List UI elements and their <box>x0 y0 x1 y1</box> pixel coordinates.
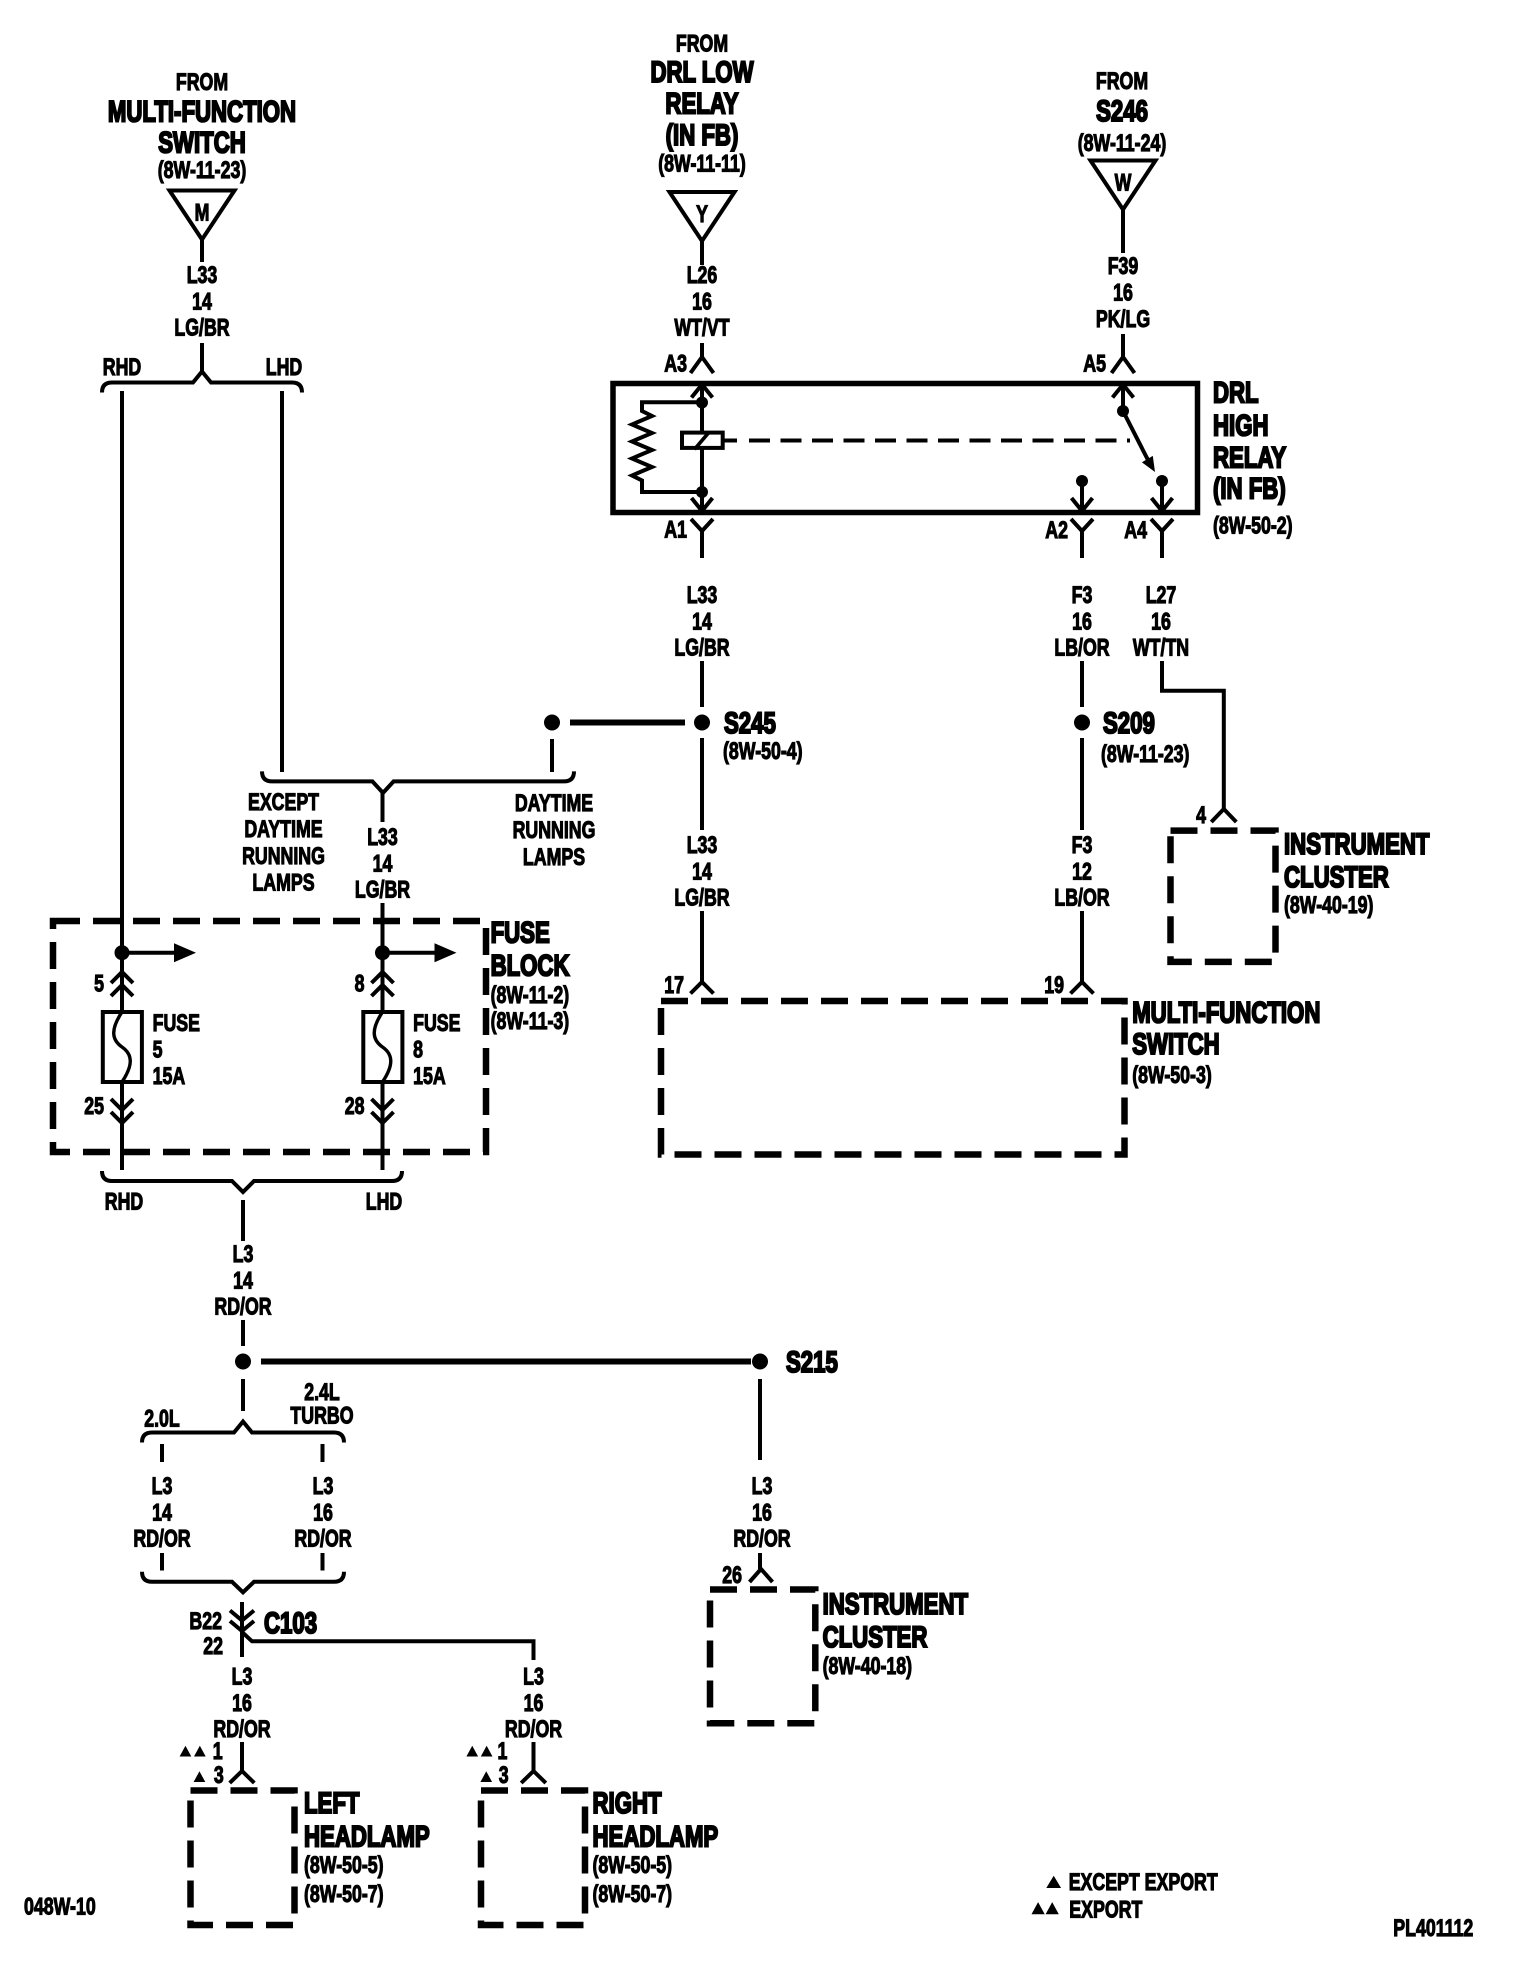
svg-text:8: 8 <box>355 971 365 997</box>
relay junction (coil bottom) <box>696 486 708 498</box>
merge bracket to C103 <box>142 1572 344 1593</box>
wire S245 to daytime-running-lamps bracket <box>550 739 554 772</box>
wire LHD to except-DRL bracket <box>280 391 284 772</box>
terminal chevrons pin 5 <box>111 972 133 996</box>
connector right headlamp pin 3 <box>521 1771 546 1783</box>
svg-text:FROM: FROM <box>176 70 228 96</box>
svg-text:F3: F3 <box>1072 833 1093 859</box>
wire <box>700 343 704 357</box>
svg-text:(8W-11-24): (8W-11-24) <box>1078 131 1166 157</box>
connector pin 26 <box>750 1569 773 1582</box>
dashed actuation link <box>749 439 1130 443</box>
box RIGHT HEADLAMP <box>481 1791 585 1926</box>
svg-text:WT/TN: WT/TN <box>1133 635 1189 661</box>
svg-text:S246: S246 <box>1096 94 1148 128</box>
svg-text:16: 16 <box>232 1690 252 1716</box>
svg-text:RD/OR: RD/OR <box>294 1526 351 1552</box>
relay junction (coil top) <box>696 397 708 409</box>
wire A4 to instrument cluster pin 4 <box>1162 661 1224 809</box>
split bracket 2.0L/2.4L <box>142 1422 344 1443</box>
box LEFT HEADLAMP <box>191 1791 295 1926</box>
svg-text:INSTRUMENT: INSTRUMENT <box>1284 827 1429 861</box>
svg-text:S215: S215 <box>786 1345 838 1379</box>
svg-text:A2: A2 <box>1045 518 1068 544</box>
svg-text:14: 14 <box>233 1268 253 1294</box>
svg-text:(8W-40-19): (8W-40-19) <box>1284 893 1373 919</box>
svg-text:15A: 15A <box>413 1064 446 1090</box>
wire S215 bus <box>261 1359 751 1365</box>
wire <box>700 661 704 707</box>
split bracket RHD/LHD <box>102 372 302 393</box>
svg-text:LB/OR: LB/OR <box>1054 635 1109 661</box>
svg-text:FROM: FROM <box>1096 69 1148 95</box>
wire <box>240 1742 244 1771</box>
svg-text:LG/BR: LG/BR <box>355 877 410 903</box>
wire <box>700 738 704 830</box>
wire <box>200 343 204 371</box>
node S209 <box>1074 715 1090 731</box>
wire <box>1121 210 1125 254</box>
svg-text:1: 1 <box>498 1739 508 1765</box>
svg-text:INSTRUMENT: INSTRUMENT <box>823 1587 968 1621</box>
wire <box>241 1200 245 1241</box>
svg-text:3: 3 <box>214 1763 224 1789</box>
svg-text:PK/LG: PK/LG <box>1096 306 1150 332</box>
svg-text:L3: L3 <box>752 1474 773 1500</box>
svg-text:RHD: RHD <box>105 1189 143 1215</box>
svg-text:RHD: RHD <box>103 355 141 381</box>
relay switch arm (to A4) <box>1123 411 1149 461</box>
wire <box>1080 911 1084 982</box>
svg-text:28: 28 <box>345 1094 365 1120</box>
wire S245 bus <box>570 720 685 726</box>
svg-text:4: 4 <box>1196 803 1206 829</box>
svg-text:DRL LOW: DRL LOW <box>650 55 753 89</box>
svg-text:(8W-50-7): (8W-50-7) <box>593 1882 673 1908</box>
svg-text:(8W-50-5): (8W-50-5) <box>304 1853 384 1879</box>
svg-text:SWITCH: SWITCH <box>1132 1027 1220 1061</box>
svg-text:(8W-11-2): (8W-11-2) <box>491 982 570 1008</box>
svg-text:14: 14 <box>192 289 212 315</box>
wire <box>381 793 385 822</box>
connector A1 <box>691 519 713 558</box>
svg-text:SWITCH: SWITCH <box>158 125 246 159</box>
svg-text:048W-10: 048W-10 <box>24 1894 96 1920</box>
svg-text:(8W-50-4): (8W-50-4) <box>723 739 803 765</box>
junction dot (S245 branch) <box>544 715 560 731</box>
wire <box>120 1152 124 1170</box>
svg-text:16: 16 <box>752 1500 772 1526</box>
svg-text:EXCEPT EXPORT: EXCEPT EXPORT <box>1069 1870 1218 1896</box>
box MULTI-FUNCTION SWITCH <box>661 1001 1125 1155</box>
connector left headlamp pin 3 <box>230 1771 255 1783</box>
svg-text:14: 14 <box>152 1500 172 1526</box>
relay pin A5 arrow <box>1113 385 1134 398</box>
svg-text:B22: B22 <box>189 1609 222 1635</box>
svg-text:A5: A5 <box>1083 351 1106 377</box>
svg-text:(8W-40-18): (8W-40-18) <box>823 1654 912 1680</box>
svg-text:F3: F3 <box>1072 583 1093 609</box>
svg-text:L3: L3 <box>232 1664 253 1690</box>
box FUSE BLOCK <box>53 921 486 1152</box>
legend mark except-export (left headlamp pin 3) <box>194 1771 206 1782</box>
svg-text:EXCEPT: EXCEPT <box>248 790 319 816</box>
connector triangle Y (from DRL low relay) <box>670 192 735 241</box>
svg-text:RD/OR: RD/OR <box>733 1526 790 1552</box>
svg-text:FUSE: FUSE <box>413 1011 460 1037</box>
svg-text:RUNNING: RUNNING <box>242 843 325 869</box>
wire <box>381 1152 385 1170</box>
wire branch to right headlamp <box>242 1632 534 1660</box>
connector pin 4 <box>1211 809 1236 822</box>
terminal chevrons pin 8 <box>372 972 394 996</box>
svg-text:S245: S245 <box>724 706 776 740</box>
svg-text:LG/BR: LG/BR <box>674 885 729 911</box>
svg-text:RD/OR: RD/OR <box>505 1717 562 1743</box>
merge bracket (except DRL / DRL) <box>262 771 574 793</box>
svg-text:LG/BR: LG/BR <box>174 315 229 341</box>
svg-text:L3: L3 <box>152 1474 173 1500</box>
relay contact A4 <box>1156 475 1168 487</box>
svg-text:15A: 15A <box>153 1064 186 1090</box>
junction dot fuse 8 feed <box>375 945 390 960</box>
node S215 <box>752 1354 768 1370</box>
svg-text:8: 8 <box>413 1037 423 1063</box>
svg-text:HEADLAMP: HEADLAMP <box>593 1819 719 1853</box>
relay contact A2 <box>1076 475 1088 487</box>
svg-text:(8W-11-23): (8W-11-23) <box>1101 742 1189 768</box>
svg-text:L33: L33 <box>687 583 718 609</box>
wire <box>160 1553 164 1571</box>
svg-text:(8W-50-7): (8W-50-7) <box>304 1882 384 1908</box>
fuse F5 15A <box>103 1012 142 1082</box>
svg-text:14: 14 <box>373 851 393 877</box>
svg-text:LG/BR: LG/BR <box>674 635 729 661</box>
connector triangle W (from S246) <box>1091 161 1156 210</box>
wire coil vertical <box>700 402 704 492</box>
svg-text:2.0L: 2.0L <box>144 1406 180 1432</box>
svg-text:RIGHT: RIGHT <box>593 1786 662 1820</box>
relay coil suppression resistor <box>632 402 702 492</box>
svg-text:RD/OR: RD/OR <box>214 1294 271 1320</box>
relay switch pivot <box>1117 405 1129 417</box>
svg-text:19: 19 <box>1044 973 1064 999</box>
svg-text:MULTI-FUNCTION: MULTI-FUNCTION <box>1132 995 1320 1029</box>
connector pin 19 <box>1071 982 1094 994</box>
wire <box>1080 738 1084 830</box>
svg-text:16: 16 <box>524 1690 544 1716</box>
connector A4 <box>1151 519 1173 558</box>
svg-text:EXPORT: EXPORT <box>1069 1897 1142 1923</box>
relay coil symbol <box>682 433 723 448</box>
svg-text:L27: L27 <box>1146 583 1177 609</box>
svg-text:(8W-50-3): (8W-50-3) <box>1132 1063 1212 1089</box>
relay pin A1 arrow <box>692 498 713 511</box>
svg-text:DAYTIME: DAYTIME <box>244 816 322 842</box>
svg-text:(8W-50-2): (8W-50-2) <box>1213 513 1293 539</box>
svg-text:DAYTIME: DAYTIME <box>515 791 593 817</box>
svg-text:5: 5 <box>153 1037 163 1063</box>
wire <box>758 1379 762 1460</box>
legend mark except-export (right headlamp pin 3) <box>480 1771 492 1782</box>
connector A3 <box>691 357 714 373</box>
svg-text:MULTI-FUNCTION: MULTI-FUNCTION <box>108 94 296 128</box>
svg-text:F39: F39 <box>1108 254 1139 280</box>
svg-text:FUSE: FUSE <box>491 915 550 949</box>
svg-text:DRL: DRL <box>1213 375 1259 409</box>
connector C103 chevrons <box>230 1611 254 1632</box>
svg-text:LAMPS: LAMPS <box>252 870 314 896</box>
svg-text:Y: Y <box>696 202 708 228</box>
svg-text:(8W-11-3): (8W-11-3) <box>491 1009 570 1035</box>
relay pin A3 arrow <box>692 385 713 398</box>
svg-text:L33: L33 <box>187 263 218 289</box>
svg-text:14: 14 <box>692 609 712 635</box>
svg-text:(IN FB): (IN FB) <box>1213 471 1286 505</box>
svg-text:16: 16 <box>1151 609 1171 635</box>
terminal chevrons pin 28 <box>372 1099 394 1123</box>
wire to fuse 8 <box>381 903 385 953</box>
svg-text:HEADLAMP: HEADLAMP <box>304 1819 430 1853</box>
svg-text:25: 25 <box>84 1094 104 1120</box>
wire through fuse 5 <box>120 953 124 1152</box>
wire <box>1080 661 1084 707</box>
svg-text:L3: L3 <box>523 1664 544 1690</box>
svg-text:PL401112: PL401112 <box>1393 1915 1473 1941</box>
svg-text:RD/OR: RD/OR <box>133 1526 190 1552</box>
svg-text:LB/OR: LB/OR <box>1054 885 1109 911</box>
wire <box>1121 334 1125 357</box>
fuse F8 15A <box>363 1012 402 1082</box>
svg-text:RELAY: RELAY <box>1213 440 1287 474</box>
wire <box>321 1444 325 1462</box>
svg-text:(8W-11-11): (8W-11-11) <box>658 151 745 177</box>
wire <box>700 240 704 265</box>
svg-text:16: 16 <box>1113 280 1133 306</box>
junction dot (S215 branch) <box>235 1354 251 1370</box>
arrow branch (fuse block internal) <box>383 951 437 955</box>
relay box DRL HIGH RELAY (IN FB) <box>613 384 1198 513</box>
svg-text:L33: L33 <box>687 833 718 859</box>
wire <box>241 1379 245 1411</box>
svg-text:LHD: LHD <box>266 355 303 381</box>
svg-text:C103: C103 <box>264 1606 317 1640</box>
svg-text:L33: L33 <box>367 825 398 851</box>
relay pin A2 arrow <box>1072 498 1093 511</box>
merge bracket RHD/LHD <box>102 1171 402 1192</box>
wire <box>241 1320 245 1346</box>
svg-text:16: 16 <box>313 1500 333 1526</box>
terminal chevrons pin 25 <box>111 1099 133 1123</box>
svg-text:LAMPS: LAMPS <box>523 844 585 870</box>
wire <box>160 1444 164 1462</box>
wire coil to dashed link <box>723 439 737 443</box>
svg-text:LEFT: LEFT <box>304 1786 359 1820</box>
svg-text:A3: A3 <box>664 351 687 377</box>
svg-text:L26: L26 <box>687 263 718 289</box>
box INSTRUMENT CLUSTER (8W-40-18) <box>710 1590 815 1724</box>
svg-text:L3: L3 <box>313 1474 334 1500</box>
svg-text:M: M <box>195 200 210 226</box>
wire through fuse 8 <box>381 953 385 1152</box>
svg-text:14: 14 <box>692 859 712 885</box>
wire <box>758 1553 762 1569</box>
svg-text:LHD: LHD <box>366 1189 403 1215</box>
svg-text:S209: S209 <box>1103 706 1155 740</box>
connector pin 17 <box>691 982 714 994</box>
wire <box>700 911 704 982</box>
legend triangles EXPORT <box>1032 1902 1045 1914</box>
box INSTRUMENT CLUSTER (8W-40-19) <box>1171 831 1276 962</box>
svg-text:A4: A4 <box>1124 518 1147 544</box>
wire <box>240 1602 244 1657</box>
svg-text:TURBO: TURBO <box>290 1403 353 1429</box>
connector A5 <box>1112 357 1135 373</box>
svg-text:26: 26 <box>722 1563 742 1589</box>
svg-text:5: 5 <box>94 971 104 997</box>
wire RHD to fuse 5 <box>120 391 124 953</box>
svg-text:1: 1 <box>213 1739 223 1765</box>
junction dot fuse 5 feed <box>115 945 130 960</box>
svg-text:FROM: FROM <box>676 31 728 57</box>
connector A2 <box>1071 519 1093 558</box>
svg-text:L3: L3 <box>233 1242 254 1268</box>
svg-text:CLUSTER: CLUSTER <box>1284 860 1389 894</box>
svg-text:12: 12 <box>1072 859 1092 885</box>
arrow branch (fuse block internal) <box>122 951 176 955</box>
svg-text:FUSE: FUSE <box>153 1011 200 1037</box>
legend mark export (left headlamp pin 1) <box>180 1746 192 1757</box>
svg-text:RUNNING: RUNNING <box>513 817 596 843</box>
svg-text:22: 22 <box>203 1634 223 1660</box>
wire <box>532 1742 536 1771</box>
relay pin A4 arrow <box>1152 498 1173 511</box>
svg-text:16: 16 <box>692 289 712 315</box>
node S245 <box>694 715 710 731</box>
legend triangle EXCEPT EXPORT <box>1046 1876 1061 1888</box>
svg-text:RELAY: RELAY <box>665 86 739 120</box>
connector triangle M (from multi-function switch) <box>170 191 235 240</box>
svg-text:(8W-11-23): (8W-11-23) <box>158 158 246 184</box>
svg-text:WT/VT: WT/VT <box>674 315 729 341</box>
wire <box>321 1553 325 1571</box>
svg-text:3: 3 <box>499 1763 509 1789</box>
legend mark export (right headlamp pin 1) <box>466 1746 478 1757</box>
wire <box>200 240 204 263</box>
svg-text:HIGH: HIGH <box>1213 408 1268 442</box>
svg-text:(IN FB): (IN FB) <box>666 118 739 152</box>
svg-text:2.4L: 2.4L <box>304 1380 340 1406</box>
svg-text:17: 17 <box>664 973 684 999</box>
svg-text:16: 16 <box>1072 609 1092 635</box>
svg-text:(8W-50-5): (8W-50-5) <box>593 1853 673 1879</box>
svg-text:W: W <box>1115 170 1132 196</box>
svg-text:BLOCK: BLOCK <box>491 948 570 982</box>
svg-text:CLUSTER: CLUSTER <box>823 1620 928 1654</box>
svg-text:A1: A1 <box>664 517 687 543</box>
